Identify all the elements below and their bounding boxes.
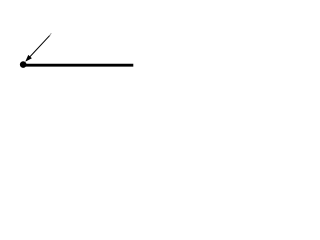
wire (horizontal line) [23,64,133,67]
node A (filled terminal dot) [20,61,27,68]
wire (arrow shaft) [30,35,50,57]
wire (arrow shaft faint tail end) [50,33,52,36]
arrowhead pointing to node A [25,55,32,62]
